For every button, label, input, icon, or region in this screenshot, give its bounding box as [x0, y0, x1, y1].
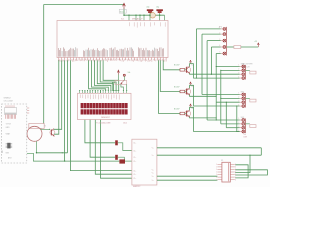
svg-text:V+: V+ [152, 172, 154, 174]
wire staircase LCD data lines [89, 60, 106, 90]
ladder wires group SV3 [207, 119, 240, 121]
buzzer SP1 circle [27, 126, 42, 141]
IC2 inner loop wire [235, 165, 248, 178]
wire crystal cap right [159, 13, 161, 21]
connector SV2 pins [240, 94, 242, 96]
svg-text:1: 1 [216, 172, 217, 174]
svg-text:1: 1 [216, 174, 217, 176]
wire MCU to T1 base [163, 60, 180, 70]
transistor T3 [186, 111, 188, 117]
connector SV1 pins [240, 66, 242, 68]
transistor T2 [186, 89, 188, 95]
supply symbol +5V arrow [123, 3, 126, 9]
wire collector riser T3 [190, 107, 194, 110]
svg-text:V+: V+ [152, 180, 154, 182]
resistor base T1 [180, 69, 185, 72]
wire PB0 to buzzer transistor base [54, 60, 59, 134]
capacitor C3 [119, 159, 125, 163]
crystal Q1 [150, 13, 156, 19]
svg-text:C1+: C1+ [133, 170, 136, 172]
svg-text:C1+: C1+ [133, 178, 136, 180]
wire buzzer to transistor [41, 128, 50, 131]
pin stub XTAL right [164, 15, 166, 20]
MCU bottom pin stubs [58, 58, 60, 61]
svg-text:1: 1 [216, 177, 217, 179]
svg-text:C1+: C1+ [133, 150, 136, 152]
wire top pin bus [124, 14, 165, 16]
svg-text:MEGA16-P: MEGA16-P [132, 17, 143, 20]
wire PB3 long to C3 [65, 60, 120, 161]
wire T3 emitter net [190, 117, 217, 118]
svg-text:TC1602A-01SE: TC1602A-01SE [96, 122, 111, 125]
connector SV3 pins [240, 119, 242, 121]
module chip [7, 143, 10, 149]
svg-text:BC337: BC337 [174, 86, 180, 88]
wire +5V top rail [44, 4, 124, 6]
wire T3 collector net [194, 107, 240, 131]
supply arrow T1 [190, 60, 192, 63]
display LCD1 body [78, 93, 132, 119]
junction dots buses [216, 66, 217, 67]
IC2 left pins [217, 163, 222, 165]
wire trimmer wiper to LCD VO [121, 84, 124, 90]
wires into JP2 [196, 28, 220, 30]
resistor R5 [227, 46, 234, 48]
wire LCD gnd line [101, 91, 132, 179]
wire MCU to T3 base [159, 60, 180, 113]
junction dots on top bus [123, 15, 124, 16]
vertical bus line 1 [195, 29, 197, 78]
resistor near SV1 [246, 69, 250, 71]
svg-text:T2: T2 [191, 86, 193, 88]
wire buzzer bottom [36, 141, 38, 153]
wire crystal cap left [149, 13, 151, 21]
module pins right [27, 107, 29, 109]
svg-text:1: 1 [216, 164, 217, 166]
IC2 outer loop wire [235, 170, 267, 175]
LCD pin labels [79, 95, 81, 98]
svg-text:V+: V+ [152, 170, 154, 172]
ladder wires group SV2 [202, 94, 240, 96]
LCD char row 1 [81, 103, 84, 108]
wire T2 collector net [194, 85, 240, 106]
resistor base T2 [180, 90, 185, 93]
ladder wires group SV1 [216, 66, 239, 68]
LCD char row 2 [81, 109, 84, 114]
net label VCC frame [119, 9, 126, 13]
trimmer top pin [123, 74, 125, 76]
wire left vertical net to buzzer [43, 5, 45, 124]
svg-text:DEM16217: DEM16217 [101, 117, 110, 119]
wire C3 to IC3 [125, 160, 132, 162]
transistor Q6 buzzer [50, 129, 52, 135]
capacitor C4 [115, 140, 118, 145]
wire collector riser T2 [190, 85, 194, 88]
svg-text:GND: GND [6, 127, 11, 129]
wire VCC to trimmer [117, 75, 119, 81]
vertical bus line 5 [215, 54, 217, 121]
svg-text:C1+: C1+ [133, 157, 136, 159]
wire T1 collector net [194, 64, 240, 79]
IC2 right pins [230, 163, 235, 165]
svg-text:22p: 22p [156, 6, 159, 8]
trimmer R6 body [115, 81, 127, 85]
wire MCU to T2 base [160, 60, 180, 91]
svg-text:V+: V+ [152, 176, 154, 178]
capacitor C2 [156, 9, 163, 11]
supply arrow trimmer VCC [117, 70, 119, 74]
svg-text:16x2: 16x2 [123, 123, 127, 125]
vertical bus line 2 [201, 34, 203, 94]
module connector body [5, 108, 17, 115]
connector JP2 bracket [226, 27, 228, 56]
wire R5 to 5V [241, 46, 258, 48]
wire LCD rw through symbol [90, 91, 115, 158]
svg-text:C1+: C1+ [133, 143, 136, 145]
vertical bus line 4 [210, 47, 212, 74]
wire VCC drop to MCU top [123, 9, 125, 15]
vertical bus chain p4 [236, 106, 238, 132]
pin stubs MCU top pins [128, 15, 130, 20]
wire buzzer gnd rail [37, 152, 68, 154]
svg-text:T3: T3 [191, 108, 193, 110]
svg-text:CELLULAR: CELLULAR [4, 100, 14, 103]
wire collector riser T1 [190, 64, 194, 67]
module connector pins top [5, 105, 7, 107]
svg-text:VCC: VCC [120, 11, 125, 13]
junction dots near caps [64, 160, 66, 162]
wire LCD vss through symbol [85, 91, 115, 143]
wire C5 out [118, 157, 125, 161]
MCU top pin names [129, 22, 131, 26]
IC3 right pin wires [157, 147, 261, 149]
MCU bottom pin name band [57, 48, 59, 57]
op IC2 body [222, 162, 230, 182]
resistor near SV3 [246, 123, 250, 125]
MCU pin number fuzz [57, 60, 59, 61]
svg-text:DB9: DB9 [244, 137, 248, 139]
svg-text:TX RX: TX RX [6, 124, 12, 126]
module U1 dashed outline [2, 104, 27, 163]
op IC3 body [132, 139, 157, 185]
wire trimmer left link [112, 82, 118, 90]
wire T1 emitter net [190, 73, 212, 74]
svg-text:1: 1 [216, 179, 217, 181]
wire T2 emitter net [190, 95, 217, 96]
capacitor C5 [115, 155, 118, 160]
supply arrow right 5V [257, 43, 259, 47]
svg-text:C1+: C1+ [133, 174, 136, 176]
svg-text:V+: V+ [152, 148, 154, 150]
svg-text:GM862: GM862 [4, 97, 12, 99]
connector SV2 bracket [245, 93, 247, 108]
wire LCD k line [95, 91, 132, 175]
wire PB1 to buzzer transistor collector [54, 60, 62, 129]
svg-text:BC337: BC337 [174, 108, 180, 110]
connector SV3 bracket [245, 119, 247, 134]
svg-text:SIM: SIM [6, 153, 10, 155]
op MCU IC1 body [57, 21, 168, 58]
svg-text:V+: V+ [152, 155, 154, 157]
bus vertical pin3 chain [225, 102, 227, 128]
connector JP2 pins [221, 28, 223, 30]
svg-text:T5: T5 [44, 126, 46, 128]
svg-text:22p: 22p [146, 6, 149, 8]
module connector pins bottom [5, 115, 7, 119]
svg-text:T1: T1 [191, 64, 193, 66]
junction dots crystal [149, 15, 150, 16]
svg-text:10k: 10k [128, 72, 131, 74]
capacitor C1 [147, 9, 154, 11]
svg-text:1: 1 [216, 167, 217, 169]
wire LCD backlight stubs [122, 91, 124, 94]
supply arrow T2 [190, 82, 192, 85]
supply arrow T3 [190, 104, 192, 107]
transistor T1 [186, 67, 188, 73]
bus vertical pin2 chain [220, 70, 222, 124]
LCD pin junction dots [79, 90, 80, 91]
wire C4 out [118, 143, 132, 151]
connector SV1 bracket [245, 65, 247, 80]
resistor base T3 [180, 112, 185, 115]
LCD pin stubs [79, 91, 81, 94]
wire trimmer end down [126, 84, 128, 90]
vertical bus line 3 [206, 41, 208, 120]
svg-text:BC337: BC337 [174, 65, 180, 67]
resistor near SV2 [246, 97, 250, 99]
svg-text:X1: X1 [221, 160, 223, 162]
wire module TX out [27, 153, 65, 161]
trimmer wiper arrow [121, 80, 125, 84]
buzzer SP1 frame [29, 124, 44, 129]
wire PB2 down to gnd rail [67, 60, 69, 153]
svg-text:1: 1 [216, 169, 217, 171]
wire PB4 to IC3 pin [70, 60, 131, 170]
svg-text:MAX232: MAX232 [133, 185, 140, 187]
svg-text:C1+: C1+ [133, 161, 136, 163]
